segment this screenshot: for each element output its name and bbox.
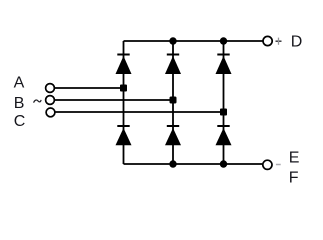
svg-text:A: A — [14, 75, 25, 92]
svg-text:F: F — [289, 170, 299, 187]
svg-text:C: C — [14, 113, 26, 130]
svg-text:B: B — [14, 95, 25, 112]
svg-text:D: D — [291, 34, 303, 51]
svg-text:E: E — [289, 150, 300, 167]
